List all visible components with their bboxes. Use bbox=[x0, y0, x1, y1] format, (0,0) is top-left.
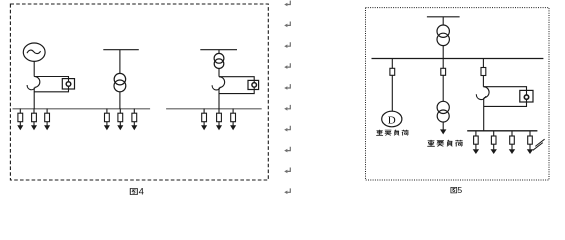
wire G1 to breaker bbox=[33, 61, 35, 76]
busbar W3 (fig5 main) bbox=[372, 58, 544, 60]
generator G1 sine wave bbox=[27, 50, 41, 53]
meter box FU2 bbox=[248, 80, 259, 89]
transformer T1 bbox=[114, 73, 126, 85]
load arrow under T4 bbox=[442, 122, 444, 130]
load arrows lower bus W4 bbox=[473, 131, 479, 154]
fuse FU4 bbox=[441, 68, 446, 75]
wire QF3 to lower bus W4 bbox=[483, 98, 485, 131]
wire FU5 to breaker QF3 bbox=[482, 76, 484, 87]
fuse FU3 bbox=[390, 68, 395, 75]
svg-text:4: 4 bbox=[139, 187, 144, 198]
transformer T2 bbox=[214, 53, 224, 63]
busbar W2 (right, gray) bbox=[166, 108, 262, 110]
wire T1 to bus W1 bbox=[119, 92, 121, 109]
svg-text:5: 5 bbox=[457, 185, 462, 195]
caption 图5 bbox=[451, 187, 457, 192]
wire L3 to T2 bbox=[218, 50, 220, 54]
breaker QF1 contact cup bbox=[27, 85, 35, 90]
bypass loop wire with meter box (circuit 3) bbox=[219, 77, 254, 94]
wire breaker to bus W1 bbox=[33, 88, 35, 109]
breaker QF2 contact cup bbox=[212, 85, 220, 90]
meter box FU1 bbox=[62, 79, 74, 89]
wire L5 to T3 bbox=[442, 17, 444, 25]
wire FU3 to motor M1 bbox=[391, 75, 393, 111]
generator G1 bbox=[23, 43, 45, 61]
load arrows bus W1 circuit2 bbox=[104, 109, 110, 131]
label 重要负荷 (left) bbox=[376, 130, 408, 136]
drop 2: wire bus to fuse FU4 bbox=[442, 59, 444, 69]
incoming line L5 (top stub) bbox=[427, 16, 460, 18]
load arrows bus W2 bbox=[201, 109, 207, 131]
wire breaker QF2 to bus W2 bbox=[218, 88, 220, 109]
transformer T4 bbox=[437, 101, 449, 113]
fuse FU5 bbox=[481, 68, 486, 76]
busbar W4 (fig5 lower) bbox=[467, 130, 537, 132]
drop 3: wire bus to fuse FU5 bbox=[482, 59, 484, 68]
wire L2 to T1 bbox=[119, 50, 121, 74]
busbar W1 (left, gray) bbox=[13, 108, 151, 110]
wire T2 to breaker QF2 bbox=[218, 69, 220, 77]
breaker QF3 contact cup bbox=[476, 94, 486, 99]
figure 5 dotted frame bbox=[366, 8, 550, 180]
svg-text:D: D bbox=[388, 114, 396, 126]
caption 图4 bbox=[130, 189, 137, 195]
wire T3 to bus W3 bbox=[442, 46, 444, 59]
bypass loop wire with meter box (circuit 1) bbox=[34, 77, 68, 92]
meter circle FU6 bbox=[524, 95, 528, 99]
drop 1: wire bus to fuse FU3 bbox=[391, 59, 393, 69]
transformer T3 bbox=[437, 25, 449, 37]
incoming line L3 (circuit 3 top bar) bbox=[200, 49, 237, 51]
fault lightning mark bbox=[533, 143, 543, 151]
incoming line L2 (circuit 2 top bar) bbox=[103, 49, 139, 51]
load arrows bus W1 circuit1 bbox=[17, 109, 23, 131]
figure 4 dashed frame bbox=[10, 4, 268, 180]
motor M1 circle bbox=[382, 111, 402, 127]
meter circle FU2 bbox=[252, 83, 257, 88]
meter box FU6 bbox=[520, 90, 533, 102]
meter circle FU1 bbox=[66, 82, 71, 87]
bypass loop wire with meter box (fig5) bbox=[483, 87, 526, 107]
label 重要负荷 (middle) bbox=[427, 140, 462, 147]
breaker QF1 blade arc bbox=[34, 76, 40, 87]
breaker QF3 blade arc bbox=[483, 87, 489, 98]
breaker QF2 blade arc bbox=[219, 77, 225, 88]
wire FU4 to T4 bbox=[442, 75, 444, 101]
